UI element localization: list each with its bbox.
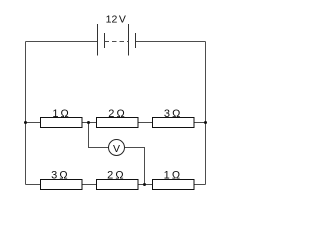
svg-text:2Ω: 2Ω bbox=[108, 108, 124, 120]
svg-text:2Ω: 2Ω bbox=[107, 170, 123, 182]
svg-text:12V: 12V bbox=[106, 14, 126, 26]
svg-text:1Ω: 1Ω bbox=[164, 170, 180, 182]
svg-text:1Ω: 1Ω bbox=[52, 108, 68, 120]
svg-text:3Ω: 3Ω bbox=[51, 170, 67, 182]
svg-text:V: V bbox=[113, 143, 120, 155]
svg-text:3Ω: 3Ω bbox=[164, 108, 180, 120]
